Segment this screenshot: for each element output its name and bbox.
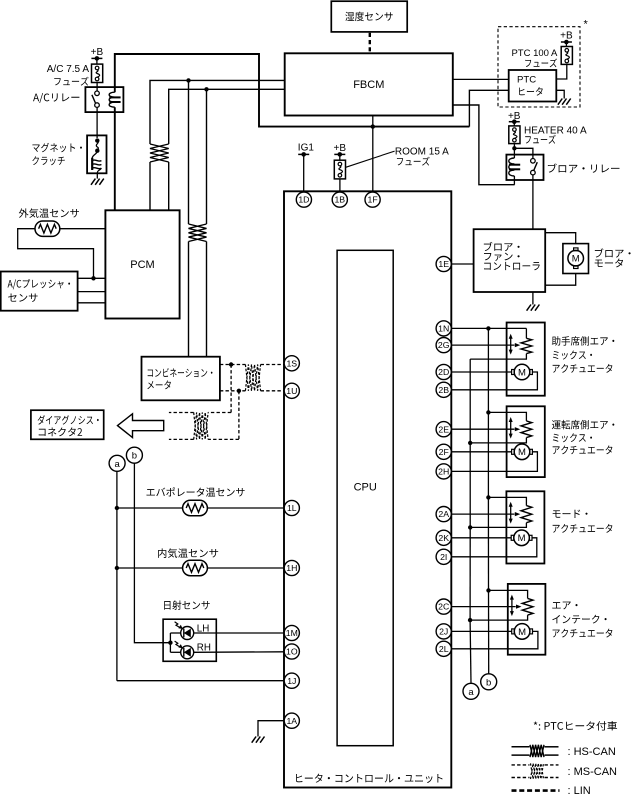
power net wire (B+ run) bbox=[115, 54, 470, 210]
air intake actuator box bbox=[508, 584, 546, 655]
junction a 1L bbox=[115, 506, 119, 510]
actuator2 resistor bbox=[521, 421, 532, 438]
wire +B to HEATER fuse bbox=[513, 122, 515, 126]
junction 1F net bbox=[371, 124, 375, 128]
asterisk mark bbox=[584, 19, 589, 31]
dashed wire meter to 1U bbox=[220, 390, 284, 392]
node a circle right bbox=[463, 683, 479, 699]
actuator3 resistor bbox=[521, 506, 532, 523]
actuator2 motor bbox=[512, 444, 533, 460]
svg-text:PTC 100 A: PTC 100 A bbox=[511, 48, 558, 59]
wire 2F to motor bbox=[451, 451, 511, 453]
evaporator temp sensor label bbox=[147, 487, 245, 496]
wire 1N to resistor top bbox=[451, 328, 526, 338]
FBCM label bbox=[353, 79, 384, 91]
pin 1B bbox=[332, 192, 347, 207]
PCM label bbox=[130, 259, 154, 271]
blower fan controller label bbox=[484, 242, 540, 270]
svg-text:2A: 2A bbox=[438, 509, 449, 519]
wire 1E to controller bbox=[451, 263, 473, 265]
wire 2A wiper arrow bbox=[451, 512, 520, 516]
svg-text:M: M bbox=[518, 447, 526, 458]
svg-text:1B: 1B bbox=[334, 195, 345, 205]
pin 1A bbox=[284, 713, 299, 728]
A/C relay label bbox=[33, 93, 79, 103]
svg-text:2L: 2L bbox=[439, 644, 449, 654]
sun sensor LH photodiode bbox=[175, 622, 194, 640]
wire 2J to motor bbox=[451, 630, 511, 632]
pin 1S bbox=[284, 356, 299, 371]
ROOM 15A fuse bbox=[334, 160, 345, 179]
wire 1A to ground bbox=[258, 721, 284, 737]
svg-text:*: * bbox=[584, 19, 589, 31]
humidity sensor label bbox=[345, 12, 392, 21]
dashed wire diag A bbox=[169, 365, 231, 413]
svg-text:PCM: PCM bbox=[130, 259, 154, 271]
sun sensor box bbox=[163, 619, 216, 661]
svg-text:a: a bbox=[114, 459, 120, 470]
wire controller to motor bottom bbox=[545, 274, 576, 286]
svg-text:2E: 2E bbox=[438, 424, 449, 434]
pin 1M bbox=[284, 625, 299, 640]
svg-text:2K: 2K bbox=[438, 533, 449, 543]
junction MS-CAN A bbox=[186, 78, 190, 82]
A/C relay box bbox=[85, 87, 123, 112]
svg-text:: LIN: : LIN bbox=[568, 785, 591, 797]
blower relay label bbox=[548, 163, 620, 172]
wire FBCM to blower relay coil bbox=[453, 105, 515, 185]
pin 2G bbox=[436, 338, 451, 353]
svg-text:+B: +B bbox=[560, 30, 573, 41]
ground 1A bbox=[252, 737, 265, 743]
CPU box bbox=[337, 250, 393, 745]
wire ROOM fuse to 1B bbox=[339, 179, 341, 192]
wire actuator3 resistor bottom to a-line bbox=[470, 523, 526, 528]
blower relay box bbox=[506, 155, 543, 180]
wire pressure sensor pin3 bbox=[78, 302, 106, 304]
node b line left bbox=[134, 463, 170, 643]
pin 2D bbox=[436, 364, 451, 379]
svg-text:1E: 1E bbox=[438, 259, 449, 269]
node b line right bbox=[487, 328, 489, 673]
inside air temp sensor label bbox=[158, 548, 218, 558]
FBCM box bbox=[285, 53, 453, 115]
wire b to actuator3 resistor top bbox=[488, 497, 526, 505]
HS-CAN wire A bbox=[150, 80, 285, 210]
svg-text:IG1: IG1 bbox=[298, 143, 315, 154]
svg-text:1H: 1H bbox=[286, 563, 297, 573]
blower motor M bbox=[568, 248, 584, 269]
mode actuator box bbox=[506, 491, 544, 563]
A/C pressure sensor label bbox=[8, 279, 71, 302]
wire 2L to motor bbox=[451, 631, 538, 648]
actuator3 travel arrow bbox=[509, 502, 513, 524]
PCM box bbox=[105, 210, 179, 318]
svg-text:: HS-CAN: : HS-CAN bbox=[568, 746, 616, 758]
inside air thermistor bbox=[183, 560, 208, 575]
pin 1L bbox=[284, 500, 299, 515]
outside air temp thermistor bbox=[35, 221, 60, 236]
pin 2C bbox=[436, 599, 451, 614]
svg-text:1J: 1J bbox=[287, 676, 296, 686]
+B terminal PTC bbox=[560, 30, 573, 44]
passenger air mix actuator box bbox=[507, 323, 545, 396]
svg-text:M: M bbox=[518, 533, 526, 544]
ROOM 15 A fuse label bbox=[346, 147, 449, 168]
node a line right bbox=[469, 359, 472, 683]
pin 1O bbox=[284, 644, 299, 659]
wire actuator1 resistor bottom to a-line bbox=[470, 354, 526, 360]
diagnosis connector label bbox=[38, 415, 99, 436]
svg-text:1F: 1F bbox=[368, 195, 378, 205]
heater control unit box bbox=[284, 191, 451, 787]
blower motor box bbox=[563, 244, 589, 274]
A/C 7.5 A fuse label bbox=[47, 64, 90, 85]
svg-text:1U: 1U bbox=[286, 386, 297, 396]
MS-CAN twist meter bbox=[189, 224, 207, 242]
pin 1J bbox=[284, 673, 299, 688]
svg-text:2I: 2I bbox=[440, 552, 447, 562]
svg-text:1A: 1A bbox=[286, 716, 297, 726]
PTC heater label bbox=[517, 75, 543, 96]
legend LIN symbol bbox=[512, 789, 560, 792]
wire relay switch to blower controller bbox=[532, 175, 534, 229]
wire 2I to motor bbox=[451, 538, 537, 557]
wire PTC heater to ground bbox=[556, 90, 564, 98]
evaporator thermistor bbox=[183, 500, 208, 515]
actuator1 motor bbox=[512, 364, 533, 380]
wire 1L bbox=[117, 507, 284, 509]
svg-text:+B: +B bbox=[334, 143, 347, 154]
blower relay switch bbox=[531, 159, 538, 175]
wire 2G wiper arrow bbox=[451, 343, 520, 347]
svg-text:2F: 2F bbox=[439, 447, 449, 457]
pin 1H bbox=[284, 560, 299, 575]
wire 2K to motor bbox=[451, 537, 511, 539]
PTC heater box bbox=[509, 70, 557, 102]
PTC option dashed box bbox=[498, 27, 580, 107]
legend LIN label bbox=[568, 785, 591, 797]
pin 1N bbox=[436, 321, 451, 336]
wire HEATER fuse to relay, junction bbox=[512, 144, 533, 159]
legend PTC note bbox=[534, 721, 617, 730]
A/C 7.5A fuse bbox=[92, 64, 103, 82]
MS-CAN wire B to meter bbox=[206, 89, 208, 356]
pin 2I bbox=[436, 549, 451, 564]
pin 2F bbox=[436, 444, 451, 459]
combination meter label bbox=[147, 368, 212, 389]
HEATER 40A fuse bbox=[509, 126, 520, 144]
wire PCM net to PTC heater pin2 bbox=[469, 90, 508, 126]
combination meter box bbox=[142, 357, 220, 401]
svg-text:A/C 7.5 A: A/C 7.5 A bbox=[47, 64, 90, 75]
dashed wire meter to 1S bbox=[220, 364, 284, 366]
svg-text:2C: 2C bbox=[438, 602, 449, 612]
wire thermistor to PCM bbox=[60, 228, 106, 230]
junction MS-CAN B bbox=[204, 87, 208, 91]
svg-text:2D: 2D bbox=[438, 367, 449, 377]
MS-CAN twist 1S1U bbox=[245, 365, 260, 391]
wire relay switch to clutch bbox=[96, 107, 98, 138]
wire 2B to motor bbox=[451, 372, 537, 390]
HS-CAN wire B bbox=[169, 89, 285, 210]
LIN wire humidity-FBCM bbox=[369, 33, 371, 53]
pin 2B bbox=[436, 382, 451, 397]
junction b-line actuator2 bbox=[486, 410, 490, 414]
pin 1F bbox=[365, 192, 380, 207]
wire pressure sensor pin1 bbox=[78, 277, 106, 279]
PTC 100A fuse bbox=[561, 47, 572, 65]
svg-text:+B: +B bbox=[508, 111, 521, 122]
PTC 100 A fuse label bbox=[511, 48, 558, 67]
svg-text:2H: 2H bbox=[438, 467, 449, 477]
svg-text:a: a bbox=[468, 687, 474, 698]
wire IG1 to 1D bbox=[303, 154, 305, 192]
svg-text:M: M bbox=[572, 254, 580, 265]
legend MS-CAN symbol bbox=[512, 763, 559, 779]
humidity sensor box (shitsudo sensor) bbox=[331, 1, 407, 32]
IG1 terminal bbox=[298, 143, 315, 157]
junction a-line actuator4 bbox=[468, 618, 472, 622]
arrow to diagnosis connector bbox=[118, 414, 164, 438]
MS-CAN twist diagnosis bbox=[194, 413, 208, 440]
actuator4 travel arrow bbox=[510, 595, 514, 617]
A/C relay switch bbox=[92, 91, 99, 107]
wire pressure sensor pin2 bbox=[78, 291, 106, 293]
actuator1 travel arrow bbox=[509, 334, 513, 355]
pin 1U bbox=[284, 383, 299, 398]
+B terminal HEATER bbox=[508, 111, 521, 124]
blower fan controller box bbox=[474, 229, 546, 292]
MS-CAN wire A to meter bbox=[188, 80, 190, 356]
wire 2D to motor bbox=[451, 371, 511, 373]
ground blower controller bbox=[527, 305, 540, 311]
wire +B to AC fuse bbox=[96, 58, 98, 64]
wire controller to motor top bbox=[545, 233, 576, 244]
wire clutch to ground bbox=[96, 173, 98, 178]
wire 2E wiper arrow bbox=[451, 427, 520, 431]
wire thermistor branch bbox=[18, 229, 94, 279]
wire +B to PTC fuse bbox=[565, 42, 567, 47]
wire actuator4 resistor bottom to a-line bbox=[470, 615, 527, 620]
actuator2 travel arrow bbox=[509, 417, 513, 439]
svg-text:HEATER 40 A: HEATER 40 A bbox=[524, 126, 587, 137]
node b circle left bbox=[126, 447, 142, 463]
ground magnet clutch bbox=[91, 179, 104, 185]
node a circle left bbox=[109, 455, 125, 471]
passenger air mix label bbox=[552, 336, 615, 373]
pin 2K bbox=[436, 530, 451, 545]
svg-text:PTC: PTC bbox=[517, 75, 536, 86]
svg-text:2J: 2J bbox=[439, 627, 448, 637]
junction diag B bbox=[237, 389, 241, 393]
pin 2J bbox=[436, 624, 451, 639]
wire net to 1F bbox=[372, 127, 374, 192]
A/C relay coil bbox=[109, 92, 120, 107]
actuator4 resistor bbox=[522, 598, 533, 615]
wire +B to ROOM fuse bbox=[339, 154, 341, 160]
actuator3 motor bbox=[511, 530, 532, 546]
pin 1D bbox=[296, 192, 311, 207]
wire relay coil to FBCM net bbox=[513, 176, 515, 185]
svg-text:1M: 1M bbox=[286, 628, 298, 638]
svg-text:1S: 1S bbox=[286, 358, 297, 368]
wire 2H to motor bbox=[451, 452, 537, 472]
svg-text:: MS-CAN: : MS-CAN bbox=[568, 766, 618, 778]
wire PTC fuse to PTC heater bbox=[556, 64, 567, 79]
junction a-line actuator3 bbox=[468, 525, 472, 529]
wire controller to ground bbox=[532, 292, 534, 305]
wire b to actuator2 resistor top bbox=[488, 412, 526, 421]
sun sensor RH photodiode bbox=[175, 641, 194, 659]
svg-text:+B: +B bbox=[91, 47, 104, 58]
driver air mix label bbox=[552, 420, 615, 454]
junction diag A bbox=[229, 362, 233, 366]
wire actuator2 resistor bottom to a-line bbox=[470, 438, 526, 443]
wire 1O bbox=[194, 651, 284, 654]
svg-text:1L: 1L bbox=[287, 503, 297, 513]
node a line left bbox=[116, 471, 118, 680]
actuator4 motor bbox=[512, 624, 533, 640]
pin 2A bbox=[436, 506, 451, 521]
wire 2C wiper arrow bbox=[451, 605, 521, 609]
svg-text:b: b bbox=[486, 677, 491, 688]
junction a 1H bbox=[115, 566, 119, 570]
svg-text:ROOM 15 A: ROOM 15 A bbox=[395, 147, 449, 158]
mode actuator label bbox=[553, 510, 613, 533]
wire FBCM to PTC heater pin1 bbox=[453, 78, 509, 80]
svg-text:CPU: CPU bbox=[354, 482, 377, 494]
svg-text:M: M bbox=[518, 627, 526, 638]
ground PTC heater bbox=[558, 99, 571, 105]
legend HS-CAN label bbox=[568, 746, 616, 758]
+B terminal A/C bbox=[91, 47, 104, 61]
+B terminal ROOM bbox=[334, 143, 347, 157]
actuator1 resistor bbox=[521, 338, 532, 353]
driver air mix actuator box bbox=[507, 406, 545, 477]
diagnosis connector box bbox=[31, 410, 104, 439]
wire fuse to relay switch bbox=[96, 83, 98, 92]
junction b-line actuator3 bbox=[486, 495, 490, 499]
svg-text:1N: 1N bbox=[438, 324, 449, 334]
pin 1E bbox=[436, 256, 451, 271]
junction b sun sensor bbox=[168, 641, 172, 645]
magnet clutch internals bbox=[92, 138, 101, 173]
svg-text:FBCM: FBCM bbox=[353, 79, 384, 91]
junction b-line actuator4 bbox=[486, 588, 490, 592]
legend HS-CAN symbol bbox=[512, 745, 559, 757]
pin 2L bbox=[436, 641, 451, 656]
RH label bbox=[197, 643, 211, 654]
wire b to actuator4 resistor top bbox=[489, 590, 528, 598]
svg-text:1D: 1D bbox=[298, 195, 309, 205]
magnet clutch box bbox=[87, 135, 106, 173]
dashed wire diag B bbox=[169, 391, 239, 440]
svg-text:1O: 1O bbox=[286, 647, 298, 657]
svg-text:b: b bbox=[132, 451, 137, 462]
CPU label bbox=[354, 482, 377, 494]
junction pressure sensor wire bbox=[91, 276, 95, 280]
wire 1J bbox=[117, 680, 284, 682]
node b circle right bbox=[481, 674, 497, 690]
svg-text:2B: 2B bbox=[438, 385, 449, 395]
wire FBCM bottom stub bbox=[372, 116, 374, 127]
magnet clutch label bbox=[32, 143, 82, 165]
blower motor label bbox=[595, 248, 631, 267]
blower relay coil bbox=[509, 158, 520, 176]
wire 1M bbox=[194, 632, 284, 634]
HEATER 40 A fuse label bbox=[524, 126, 587, 144]
outside air temp sensor label bbox=[19, 208, 79, 218]
pin 2H bbox=[436, 464, 451, 479]
sun sensor label bbox=[164, 600, 210, 609]
air intake label bbox=[552, 602, 612, 638]
wire 1H bbox=[117, 567, 284, 569]
A/C pressure sensor box bbox=[1, 272, 78, 311]
svg-text:M: M bbox=[518, 367, 526, 378]
LH label bbox=[197, 623, 210, 634]
sun sensor common wire bbox=[170, 633, 180, 652]
junction a-line actuator2 bbox=[468, 441, 472, 445]
svg-text:2G: 2G bbox=[438, 340, 450, 350]
junction b-line at 1N bbox=[486, 326, 490, 330]
pin 2E bbox=[436, 422, 451, 437]
unit label bbox=[296, 774, 442, 783]
HS-CAN twist PCM bbox=[150, 144, 169, 162]
legend MS-CAN label bbox=[568, 766, 618, 778]
